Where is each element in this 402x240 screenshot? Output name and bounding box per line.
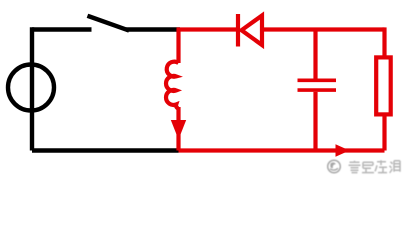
- switch S1 lever: [90, 17, 128, 30]
- diode D1 triangle: [242, 16, 263, 46]
- wire right rail bottom (red): [382, 114, 386, 150]
- wire top-left horizontal (black): [32, 27, 92, 31]
- wire left rail vertical (black): [30, 27, 34, 150]
- resistor R1 body: [376, 57, 391, 114]
- wire bottom-left horizontal (black): [32, 148, 179, 152]
- inductor L1 top lead: [176, 30, 180, 64]
- wire diode to top-right corner (red): [262, 27, 385, 31]
- capacitor C1 top lead: [313, 30, 317, 79]
- watermark logo circle: [328, 160, 341, 173]
- inductor L1 coil: [166, 62, 178, 109]
- output current arrow: [336, 144, 350, 156]
- wire switch to node A (black): [126, 27, 180, 31]
- wire bottom red horizontal: [179, 148, 385, 152]
- capacitor C1 bottom lead: [313, 92, 317, 151]
- watermark text (stylized glyph strokes): [349, 160, 401, 173]
- diode D1 cathode bar: [236, 14, 240, 47]
- capacitor C1 bottom plate: [298, 88, 337, 92]
- source V1 circle: [8, 65, 54, 111]
- inductor L1 bottom lead: [176, 107, 180, 151]
- wire node A to diode (red): [177, 27, 237, 31]
- inductor current arrow: [171, 120, 186, 140]
- capacitor C1 top plate: [298, 79, 337, 83]
- wire right rail top (red): [382, 27, 386, 57]
